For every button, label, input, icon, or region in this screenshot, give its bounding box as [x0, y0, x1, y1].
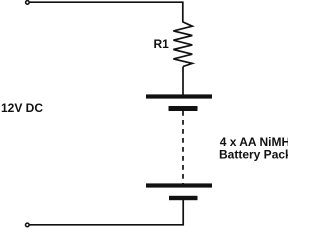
wire top horizontal — [30, 1, 184, 3]
svg-text:12V DC: 12V DC — [1, 101, 43, 115]
terminal (+) top-left — [26, 1, 30, 5]
terminal (-) bottom-left — [26, 223, 30, 227]
battery cell 4 plate + (long) — [146, 183, 212, 187]
wire right vertical to resistor — [182, 2, 184, 22]
battery cell 4 plate - (short) — [169, 196, 198, 200]
battery cell 1 plate - (short) — [169, 106, 198, 111]
svg-text:R1: R1 — [154, 37, 170, 51]
resistor R1 — [173, 22, 192, 67]
dashed link between cells — [182, 111, 184, 184]
svg-text:Battery Pack: Battery Pack — [219, 148, 288, 162]
wire battery to bottom — [29, 200, 183, 225]
wire resistor to battery — [182, 67, 184, 96]
battery cell 1 plate + (long) — [146, 94, 212, 98]
